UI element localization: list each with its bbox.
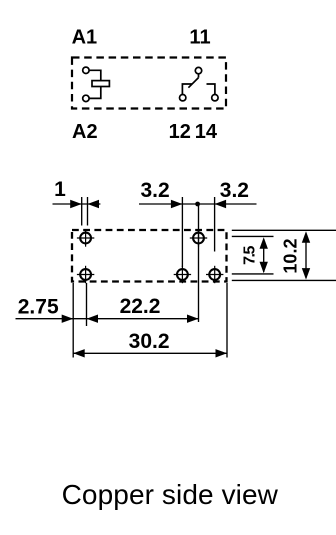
- svg-text:30.2: 30.2: [129, 330, 170, 353]
- svg-text:7.5: 7.5: [242, 246, 259, 265]
- svg-text:10.2: 10.2: [281, 239, 301, 274]
- svg-text:12: 12: [169, 121, 191, 143]
- svg-text:3.2: 3.2: [140, 179, 169, 202]
- svg-text:A1: A1: [72, 26, 98, 48]
- svg-text:22.2: 22.2: [120, 295, 161, 318]
- svg-text:Copper side view: Copper side view: [62, 479, 279, 510]
- svg-text:11: 11: [189, 26, 210, 48]
- svg-text:1: 1: [54, 178, 66, 201]
- svg-text:2.75: 2.75: [18, 296, 59, 319]
- svg-text:14: 14: [195, 121, 218, 143]
- svg-text:3.2: 3.2: [220, 179, 249, 202]
- svg-text:A2: A2: [72, 121, 98, 143]
